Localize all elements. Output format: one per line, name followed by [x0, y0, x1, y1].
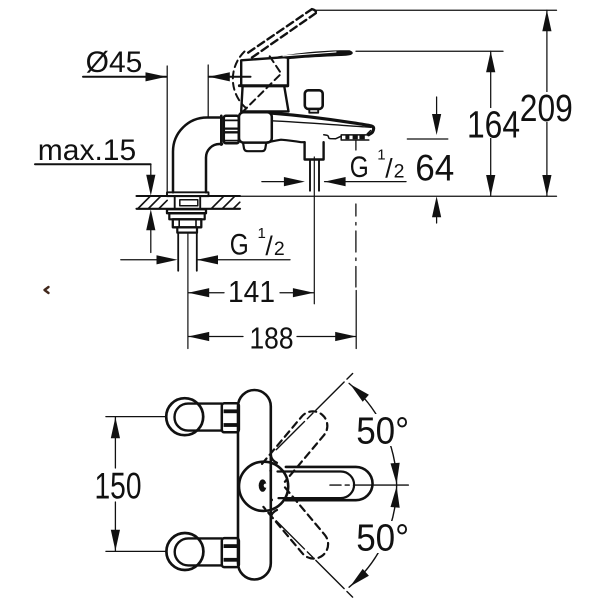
plan handle inner line: [278, 472, 355, 499]
mounting washer and nut stack: [167, 209, 206, 232]
threaded tailpipe: [178, 233, 197, 271]
union nut U1: [224, 116, 239, 143]
thread label G 1/2 lower: [230, 225, 285, 262]
G 1/2 lower arrows: [121, 255, 290, 264]
plan bottom union capsule: [175, 538, 222, 565]
lever handle base: [241, 57, 288, 86]
shower hose outlet stub: [305, 142, 324, 191]
deck surface reference line: [239, 195, 557, 197]
150 extension line bottom: [106, 550, 167, 552]
handle rotated up 50 (dashed): [262, 405, 333, 482]
plan handle base circle: [239, 462, 288, 511]
svg-text:/: /: [265, 231, 273, 261]
plan top union nut: [222, 403, 239, 432]
cartridge section: [239, 86, 288, 112]
209 reference line top: [316, 9, 557, 11]
spout centerline (dash-dot): [355, 141, 357, 287]
plan centerline: [330, 484, 408, 486]
dimension max.15 label: [35, 134, 151, 167]
spout body: [266, 113, 373, 142]
lever swing arc (dashed): [233, 52, 247, 109]
elbow pipe end collar: [220, 116, 223, 145]
dimension 64: [415, 97, 454, 223]
svg-text:209: 209: [520, 88, 573, 130]
svg-text:2: 2: [394, 161, 405, 183]
svg-text:50°: 50°: [356, 518, 409, 560]
svg-text:141: 141: [228, 274, 275, 309]
188 extension line right: [355, 291, 357, 349]
label 50 deg lower: [355, 518, 409, 560]
diverter knob: [305, 90, 323, 112]
escutcheon flange: [167, 192, 209, 196]
svg-text:164: 164: [467, 105, 520, 147]
union housing: [239, 112, 272, 142]
elbow pipe: [173, 118, 222, 193]
svg-text:max.15: max.15: [38, 134, 136, 167]
svg-text:50°: 50°: [356, 411, 409, 453]
raised lever (dashed): [248, 9, 316, 57]
dimension 164: [466, 51, 520, 196]
plan bottom union nut: [222, 538, 239, 567]
stray mark: [45, 287, 49, 293]
mounting deck bottom edge: [137, 208, 241, 210]
lower radial line: [276, 521, 354, 599]
plan body: [238, 390, 271, 580]
svg-text:G: G: [230, 229, 249, 262]
svg-text:64: 64: [415, 148, 454, 189]
thread label G 1/2 upper: [350, 147, 405, 184]
upper radial line: [276, 372, 354, 450]
50 degree arc: [349, 383, 400, 587]
svg-text:/: /: [385, 154, 393, 184]
Ø45 extension line right: [207, 65, 209, 117]
plan handle outline: [286, 467, 373, 500]
svg-text:2: 2: [274, 238, 285, 260]
dimension 209: [520, 10, 573, 196]
svg-text:150: 150: [95, 466, 142, 507]
svg-text:188: 188: [250, 321, 294, 356]
dimension 188: [188, 321, 356, 356]
dimension Ø45 label: [83, 46, 167, 81]
dimension 150: [95, 417, 142, 551]
threaded shank in deck: [175, 196, 201, 209]
150 extension line top: [106, 416, 167, 418]
max.15 dimension line: [146, 164, 155, 252]
deck hatching: [138, 196, 240, 208]
label 50 deg upper: [355, 411, 409, 453]
raised lever back edge (dashed): [244, 56, 281, 110]
stub centerline: [313, 157, 315, 304]
G 1/2 upper arrows: [262, 177, 406, 186]
dimension 141: [188, 274, 314, 309]
housing underside bump: [243, 143, 266, 152]
handle rotated down 50 (dashed): [263, 487, 334, 564]
plan top union capsule: [175, 404, 222, 431]
164 reference line: [356, 50, 503, 52]
spout top inner line: [272, 121, 371, 128]
body-handle fillet bottom: [271, 510, 277, 518]
plan bottom escutcheon circle: [166, 533, 203, 570]
Ø45 extension line left: [166, 66, 168, 192]
body-handle fillet top: [271, 455, 277, 463]
svg-text:G: G: [350, 151, 369, 184]
plan top escutcheon circle: [166, 398, 203, 435]
mounting deck top edge: [137, 195, 241, 197]
64 reference line: [407, 138, 448, 140]
svg-text:Ø45: Ø45: [86, 46, 143, 79]
handle logo mark: [259, 469, 273, 501]
lever blade: [278, 50, 353, 59]
tailpipe centerline: [187, 234, 189, 349]
Ø45 right arrow: [209, 72, 251, 81]
